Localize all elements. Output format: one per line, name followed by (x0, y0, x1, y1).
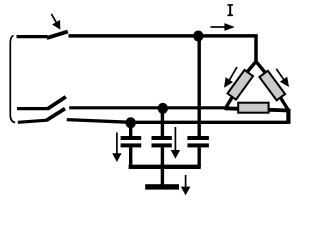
wire C1 bottom lead (129, 147, 132, 167)
current arrow at C1 (112, 133, 121, 163)
node B junction dot (158, 103, 168, 114)
wire capacitor bus (129, 165, 201, 169)
wire C2 top lead (161, 108, 164, 137)
wire phase C left segment (18, 120, 47, 122)
wire C3 bottom lead (197, 147, 200, 167)
wire phase A left segment (17, 35, 48, 38)
resistor R3 (bottom) (238, 103, 268, 113)
switch S3 blade (47, 109, 65, 121)
node A junction dot (193, 31, 203, 42)
current arrow at C2 (171, 127, 180, 159)
delta right leg wire (256, 62, 288, 111)
resistor R2 (right leg) (259, 71, 285, 101)
wire C1 top lead (129, 122, 132, 137)
wire phase B left segment (17, 107, 48, 110)
node C junction dot (126, 117, 136, 128)
wire phase A tap to C3 (197, 36, 200, 137)
current arrow I (211, 23, 235, 31)
capacitor C1 (121, 136, 142, 147)
delta bottom wire (225, 108, 290, 110)
switch S1 actuation arrow (51, 14, 60, 30)
current arrow to ground (181, 175, 191, 195)
capacitor C2 (152, 136, 172, 147)
wire phase A right segment (69, 36, 257, 64)
capacitor C3 (187, 136, 209, 147)
switch S1 blade (47, 32, 68, 38)
current arrow right leg (276, 69, 289, 87)
label I (227, 4, 233, 16)
resistor R1 (left leg) (227, 70, 253, 100)
wire phase C right segment (67, 120, 287, 123)
source bracket (10, 36, 15, 123)
ground (145, 184, 179, 189)
switch S2 blade (48, 97, 66, 109)
delta left leg wire (226, 62, 256, 108)
wire phase B right segment (69, 106, 226, 109)
wire C2 bottom lead (to ground) (161, 147, 164, 184)
current arrow left leg (224, 67, 237, 88)
